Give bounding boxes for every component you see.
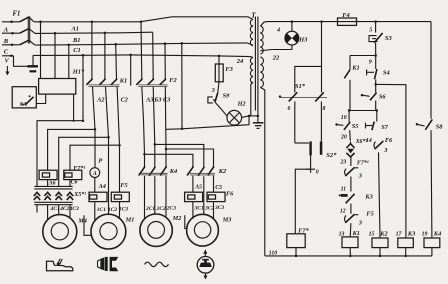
contactor K2 blade1 [187,167,193,175]
svg-text:S9: S9 [223,93,231,100]
svg-text:X5*¹: X5*¹ [73,191,86,198]
svg-text:C2: C2 [121,97,128,104]
icon pump tap [199,259,212,267]
svg-text:M4: M4 [77,217,87,224]
switch S9 [218,82,219,93]
wire to K3 coil branch [376,84,406,238]
svg-text:K3: K3 [364,194,373,201]
svg-text:F7*: F7* [298,227,309,234]
svg-text:F5: F5 [366,211,373,218]
wire C3 output [164,87,167,149]
wire K2 pole3 down [213,176,215,192]
svg-text:3: 3 [383,147,387,154]
motor M3 lead 3C3 [213,202,215,219]
X5 pin1 stub [36,205,38,213]
motor M2 lead 2C3 [165,176,167,218]
ground plate symbol [28,65,39,67]
24V neutral line [33,55,253,58]
S1 left pole down [294,101,296,143]
svg-text:10: 10 [341,115,347,121]
wire bus A1 to box [40,22,42,79]
icon chuck band [105,257,108,271]
svg-text:F2: F2 [169,77,177,84]
motor M3 lead 3C1 [192,202,194,218]
svg-text:4: 4 [276,27,280,34]
motor M2 [140,214,172,246]
wire knee C [29,40,35,45]
motor M1 lead 1C3 [119,202,121,219]
svg-text:K4: K4 [169,168,177,175]
motor M1 [91,214,126,249]
fuse F4 [338,18,357,25]
motor M4 lead 4C2 [58,205,60,215]
connector X6 [346,144,354,148]
K2 linkage bar [190,172,215,174]
S1 linkage [281,96,327,98]
contactor K4 pole2 [154,144,156,167]
svg-text:S6: S6 [379,93,387,100]
svg-text:A3: A3 [145,97,153,104]
svg-text:A4: A4 [98,183,106,190]
K1 linkage bar [89,84,120,86]
neutral left drop to ground [32,55,34,66]
svg-text:4C2: 4C2 [59,206,69,212]
wire X6 down [350,157,352,166]
motor M4 lead 4C3 [69,205,71,218]
coil K2 [372,238,388,248]
breaker F2 pole 3 wire [164,44,166,80]
svg-text:6: 6 [288,106,291,112]
wire elbow C2 to M4 branch [70,145,120,170]
svg-text:K2: K2 [218,168,227,175]
svg-text:C5: C5 [215,185,222,191]
motor M4 lead 4C1 [47,205,49,220]
switch box SA [12,87,36,108]
frame wire M4-M1 [84,215,91,235]
svg-text:9: 9 [369,60,372,66]
wire neutral drop to M4 branch [37,55,83,186]
heater A6 [39,170,57,179]
svg-text:C3: C3 [163,97,170,104]
heater on 1C3 [111,192,129,201]
transformer core [254,17,256,111]
svg-text:11: 11 [341,187,347,193]
wire box output right [73,94,75,121]
contactor K1 pole 2 wire [104,33,106,79]
svg-text:3: 3 [211,88,215,94]
svg-text:1C3: 1C3 [119,207,128,213]
F2 blade 2 [148,79,154,84]
connector X5 upper rail [34,185,72,187]
wire control winding top to rail [260,22,267,26]
control secondary winding lower [260,57,263,87]
motor M2 lead 2C2 [154,176,156,214]
svg-text:S3: S3 [385,35,393,42]
knife switch blade C [20,40,29,45]
svg-text:5: 5 [369,28,372,34]
svg-text:13: 13 [339,231,345,237]
contact S6 [375,84,377,92]
wire K2 pole1 down [192,176,194,192]
svg-text:22: 22 [272,55,280,62]
svg-text:A2: A2 [96,97,104,104]
wire 22 tap to H3 [260,45,292,51]
S1 blade left [289,92,298,101]
svg-text:C1: C1 [73,47,80,54]
wire F7 down [350,177,352,192]
ammeter A [90,168,100,178]
svg-text:P: P [98,157,102,164]
knife switch blade B [20,29,29,34]
wire F6 to K2 coil [379,152,381,238]
svg-text:24: 24 [236,58,244,65]
phase A input line [2,21,20,23]
contact K1 aux [344,70,350,79]
X5 chevron pin 1 [34,192,40,196]
button S7 [376,111,378,122]
connector S2 bars [309,141,311,155]
24V secondary winding [250,57,253,83]
wire node9 to K1 contact [349,56,351,70]
control top rail right [357,21,432,23]
link 10 [349,110,377,112]
svg-text:F6: F6 [385,137,393,144]
wire box to SA [36,94,45,103]
K1 blade 1 [86,79,92,84]
wire lamp to junction [242,116,249,118]
svg-text:H2: H2 [237,100,246,107]
icon chuck jaws [110,257,119,271]
wire B3 output [153,87,155,145]
svg-text:S5: S5 [352,123,359,130]
wire to relay F7 coil [295,169,310,234]
switch S8 [416,123,419,126]
contactor K2 blade2 [198,168,204,176]
svg-text:F3: F3 [225,66,233,73]
svg-text:S1*: S1* [295,83,306,90]
coil K1 [342,237,358,248]
svg-text:K1: K1 [352,230,360,237]
wire elbow C3 to K2 pole3 [166,149,214,167]
bus B1 [35,32,153,33]
right rail down to S8 [430,22,432,119]
heater on 3C1 [185,192,203,201]
icon pump arrow up [204,251,206,257]
svg-text:S4: S4 [383,70,390,77]
svg-text:K4: K4 [433,230,441,237]
svg-text:F7*¹: F7*¹ [357,160,369,167]
neutral V input line [2,55,14,57]
S1 right pole down [320,101,322,141]
contactor K1 pole 1 wire [91,22,93,79]
svg-text:20: 20 [340,134,347,140]
wire elbow A3 to K2 pole1 [145,154,193,167]
breaker F2 pole 1 wire [140,22,143,79]
knife switch F1 bar [28,16,31,43]
wire S1 right pole top [321,66,323,92]
K4 linkage bar [141,172,168,174]
svg-text:4C3: 4C3 [69,206,79,212]
wire elbow B3 to K2 pole2 [155,144,204,167]
svg-text:A5: A5 [194,184,202,190]
contactor K4 pole1 [144,154,146,167]
motor M3 lead 3C2 [203,176,205,214]
wire F7 coil to rail [295,248,297,256]
wire S9 to lamp [216,103,228,117]
wire elbow B2 to M4 branch [59,137,109,186]
wire knee A [29,17,34,22]
wire rail to S3 [375,22,377,33]
thermal contact F7 [345,169,347,176]
heater on 1C1 [89,192,107,201]
breaker F2 pole 2 wire [152,32,155,79]
wire to S2 [295,142,309,144]
svg-text:19: 19 [422,232,428,238]
svg-text:3: 3 [358,173,362,180]
svg-text:F7*¹: F7*¹ [73,165,85,172]
right rail to K4 coil [430,130,433,238]
coil K4 [424,238,440,248]
svg-text:0: 0 [316,170,319,176]
contactor K1 pole 3 wire [115,44,118,79]
svg-text:1C1: 1C1 [97,207,106,213]
svg-text:A6: A6 [48,180,56,186]
wire bus C1 to box [68,45,70,79]
node below S4 [375,80,377,85]
svg-text:2C3: 2C3 [166,206,176,212]
svg-text:M2: M2 [172,215,182,222]
knife switch blade A [20,17,29,22]
control secondary winding upper [260,26,263,54]
button S3 [369,36,378,42]
wire neutral elbow to ground [14,56,32,67]
svg-text:15: 15 [369,232,375,238]
wire control winding bottom down [260,87,264,256]
svg-text:K1: K1 [351,65,359,72]
svg-text:1C2: 1C2 [108,207,117,213]
F2 linkage bar [138,84,167,86]
button S4 [366,69,368,75]
wire S5 down [349,130,352,140]
svg-text:K3: K3 [407,230,415,237]
icon pump circle [197,257,214,274]
svg-text:A1: A1 [71,25,79,32]
svg-text:2C1: 2C1 [145,206,155,212]
heater on 3C3 [207,192,225,201]
icon tool bit [57,259,62,265]
svg-text:8: 8 [323,106,326,112]
wire A3 output [142,87,145,155]
svg-text:F5: F5 [120,182,127,189]
phase C input line [2,44,20,46]
S1 blade right [315,92,324,101]
motor M3 [187,214,219,246]
wire C1 tap down [181,43,183,128]
motor M4 [43,215,77,249]
svg-text:110: 110 [269,251,277,257]
primary winding [250,19,253,45]
control bottom rail 110 [265,255,432,257]
thermal contact F6 [374,142,376,149]
svg-text:A: A [3,27,9,34]
contact S5 [348,111,350,122]
svg-text:3: 3 [358,219,362,226]
terminal box H1 [39,79,76,95]
frame wire M2-M3 [185,215,187,228]
icon pump arrow down [205,273,207,276]
down arrow under V [6,66,8,74]
control top rail [267,21,338,23]
heater C6 [64,170,82,179]
wire heater A6 down [47,180,49,187]
fuse F3 [218,56,220,64]
K1 blade 2 [99,79,105,84]
svg-text:S2*: S2* [326,152,337,159]
wire knee B [29,29,35,34]
svg-text:K1: K1 [119,78,127,85]
svg-text:C: C [4,49,9,56]
wire rail to S1 [295,22,322,93]
wire heater C6 down [69,180,71,187]
svg-text:C6: C6 [71,180,78,186]
svg-text:K2: K2 [379,230,387,237]
wire 24V winding bottom down [249,82,253,116]
wire ammeter to heater [94,178,96,193]
wire lamp return horizontal [166,116,249,129]
wire S2 down cross [310,155,312,172]
wire C2 output [117,87,119,193]
wire S3 to node 9 [375,43,377,56]
svg-text:3C3: 3C3 [214,205,224,211]
svg-text:F4: F4 [342,12,349,19]
contactor K2 blade3 [208,167,214,175]
contactor K4 pole3 [165,149,167,167]
bus A1 [34,17,253,22]
F2 blade 3 [160,79,166,84]
svg-text:B1: B1 [72,37,80,44]
K1 blade 3 [111,79,117,84]
svg-text:M1: M1 [125,216,135,223]
coil K3 [398,238,414,248]
junction dots near transformer [248,115,251,118]
icon coolant wave [145,262,169,266]
branch link at node 9 [350,55,376,57]
wire neutral tap to F2 bar [130,55,132,86]
icon lathe saddle [47,261,73,271]
svg-text:F6: F6 [226,190,234,197]
wire F5 to K1 coil [349,223,352,237]
lamp H3 [285,31,299,45]
SA switch symbol [29,95,31,97]
svg-text:3C1: 3C1 [194,205,204,211]
wire rail to H3 [291,22,293,32]
svg-text:B: B [3,38,9,45]
motor M1 lead 1C1 [94,202,96,222]
svg-text:X6*¹: X6*¹ [355,138,368,145]
bus C1 [35,43,253,45]
svg-text:2C2: 2C2 [156,206,166,212]
motor M2 lead 2C1 [144,176,146,219]
lamp H2 [227,110,242,125]
svg-text:S8: S8 [436,123,444,130]
wire K1 contact down [349,80,351,111]
wire junction horizontal [249,115,258,117]
contact K3 aux [341,194,348,197]
icon chuck collar [101,258,104,271]
svg-text:M3: M3 [222,216,232,223]
icon chuck nose [98,259,101,268]
wire bus B1 to box [54,33,56,78]
svg-text:H3: H3 [298,36,307,43]
phase B input line [2,32,20,34]
svg-text:S7: S7 [381,124,389,131]
thermal contact F5 [345,215,347,222]
wire A2 output [93,87,96,168]
svg-text:Б3: Б3 [153,97,161,104]
connector X5 lower rail [34,201,72,203]
wire B2 output [106,87,109,215]
wire elbow A2 to M4 branch [48,129,95,170]
svg-text:12: 12 [340,209,346,215]
svg-text:23: 23 [340,160,347,166]
svg-text:F1: F1 [13,11,21,18]
transformer ground [257,111,259,123]
relay coil F7 [287,234,305,248]
F2 blade 1 [136,79,142,84]
wire K3 down [350,204,352,214]
wire node9 to S4 [375,56,377,69]
svg-text:A: A [92,171,97,177]
